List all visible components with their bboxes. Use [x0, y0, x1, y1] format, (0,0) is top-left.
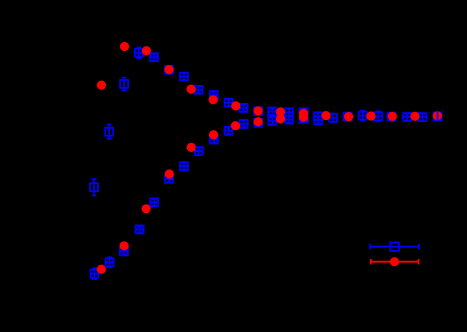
blue sq mid-9 y-error bar (drawn over red) — [437, 112, 439, 121]
blue sq mid-9 (438,116) — [434, 112, 442, 120]
blue sq up-11 (289,112) — [285, 108, 293, 116]
blue sq low-6 (169,179) — [165, 175, 173, 183]
blue sq low-1 (94,274) — [91, 268, 99, 279]
red pt low-9 (280,119) — [276, 114, 285, 123]
blue sq steep-3 (124,84) — [120, 78, 128, 91]
blue sq mid-8 (422,117) — [418, 113, 427, 121]
blue sq mid-2 (333,118) — [329, 114, 337, 123]
blue sq mid-4 (363,116) — [358, 111, 367, 121]
red pt low-4 (169,174) — [165, 169, 174, 178]
blue sq mid-5 (378,116) — [374, 111, 383, 121]
red pt up-5 (213,100) — [209, 95, 218, 104]
red pt steep-1 (101,85) — [97, 81, 106, 90]
red pt up-9 (304,113) — [299, 109, 308, 118]
red pt up-7 (258,111) — [254, 106, 263, 115]
blue sq low-11 (244,124) — [240, 120, 248, 128]
blue sq low-2 (110,262) — [106, 257, 114, 267]
blue sq up-5 (199,90) — [195, 86, 203, 94]
red pt mid-2 (349,117) — [344, 112, 353, 121]
blue sq up-9 (258,111) — [254, 107, 262, 115]
blue sq low-4 (140,229) — [136, 225, 144, 233]
blue sq low-10 (229,131) — [225, 127, 233, 135]
red pt low-7 (236,126) — [231, 121, 240, 130]
blue sq low-14 (289,120) — [285, 116, 293, 124]
red pt mid-1 (326,116) — [321, 111, 330, 120]
blue sq mid-3 (348,117) — [344, 113, 352, 121]
legend red entry — [371, 257, 419, 266]
blue sq mid-7 (407,117) — [403, 113, 412, 121]
red pt low-1 (101,269) — [97, 265, 106, 274]
blue sq up-8 (244,108) — [240, 104, 248, 112]
legend blue entry — [370, 242, 419, 251]
blue sq mid-1b (318,120) — [314, 116, 322, 124]
red pt up-3 (169,70) — [164, 65, 173, 74]
blue sq up-3 (169,70) — [165, 66, 173, 74]
blue sq low-12 (258,123) — [254, 119, 262, 127]
blue sq mid-1a (318,116) — [314, 112, 322, 120]
red pt low-2 (124,246) — [120, 241, 129, 250]
blue sq up-6 (214,95) — [210, 91, 218, 99]
red pt up-1 (124,46) — [120, 42, 129, 51]
blue sq low-5 (154,202) — [150, 198, 158, 206]
red pt up-6 (236,106) — [231, 101, 240, 110]
blue sq up-10 (272,112) — [268, 108, 276, 116]
blue sq low-9 (214,140) — [210, 136, 218, 144]
red pt mid-3 (371,116) — [366, 111, 375, 120]
red pt low-10 (304,117) — [299, 113, 308, 122]
red pt low-8 (258,122) — [254, 117, 263, 126]
red pt mid-4 (392,116) — [388, 112, 397, 121]
blue sq up-2 (154,57) — [150, 53, 158, 61]
blue sq low-13 (272,121) — [268, 117, 276, 125]
blue sq low-15 (304,119) — [300, 115, 308, 123]
blue sq mid-6 (392,117) — [387, 113, 396, 121]
red pt up-8 (280,112) — [276, 107, 285, 116]
red pt up-2 (146,51) — [142, 46, 151, 55]
red pt low-3 (146,209) — [142, 204, 151, 213]
blue sq low-8 (199,151) — [195, 147, 203, 155]
blue sq up-4 (184,77) — [180, 73, 188, 81]
red pt up-4 (191,89) — [187, 85, 196, 94]
blue sq up-12 (304,112) — [300, 108, 308, 116]
red pt mid-6 (437,116) — [433, 111, 442, 120]
blue sq steep-2 (109,132) — [105, 125, 113, 139]
red pt mid-5 (415,116) — [410, 112, 419, 121]
blue sq up-1 (139,53) — [135, 48, 143, 59]
red pt low-6 (214,135) — [209, 130, 218, 139]
red pt low-5 (191,147) — [187, 143, 196, 152]
blue sq up-7 (229,103) — [225, 99, 233, 107]
blue sq low-3 (124,251) — [120, 247, 128, 255]
blue sq low-7 (184,166) — [180, 162, 188, 170]
blue sq steep-1 (94,187) — [90, 179, 98, 195]
